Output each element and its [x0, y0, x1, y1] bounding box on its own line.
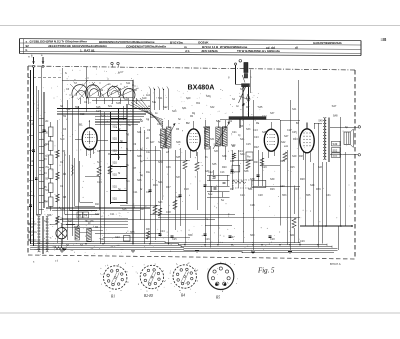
svg-text:S53: S53 — [282, 194, 287, 197]
svg-text:R24: R24 — [280, 160, 285, 163]
svg-text:C27: C27 — [230, 172, 235, 175]
svg-text:C21: C21 — [232, 131, 237, 134]
svg-text:S31: S31 — [158, 181, 163, 184]
svg-text:S20: S20 — [95, 213, 100, 216]
svg-text:C11: C11 — [110, 213, 115, 216]
svg-text:a-C7: a-C7 — [118, 71, 124, 74]
svg-text:S59: S59 — [188, 234, 193, 237]
svg-text:S23: S23 — [137, 155, 142, 158]
svg-text:C14: C14 — [146, 191, 151, 194]
svg-text:S32: S32 — [210, 106, 215, 109]
svg-text:S2 S34: S2 S34 — [214, 144, 223, 147]
svg-text:52w: 52w — [216, 120, 221, 123]
svg-text:C12: C12 — [146, 151, 151, 154]
svg-text:C16: C16 — [250, 204, 255, 207]
svg-text:S60: S60 — [250, 234, 255, 237]
svg-text:C12: C12 — [262, 115, 267, 118]
svg-text:S47: S47 — [284, 135, 289, 138]
svg-text:S11: S11 — [75, 106, 80, 109]
svg-text:S55: S55 — [306, 194, 311, 197]
svg-text:B2: B2 — [186, 121, 190, 125]
svg-text:Gr: Gr — [236, 105, 239, 108]
svg-text:C23: C23 — [254, 136, 259, 139]
svg-text:BYGYSw: BYGYSw — [170, 40, 184, 44]
svg-text:S12: S12 — [80, 113, 85, 116]
svg-text:S17: S17 — [97, 161, 102, 164]
svg-text:S31: S31 — [182, 107, 187, 110]
svg-text:dl: dl — [295, 45, 298, 49]
svg-text:b51: b51 — [196, 102, 201, 105]
svg-text:BEDIENINGSVOORSCHRdBemGBwme: BEDIENINGSVOORSCHRdBemGBwme — [99, 40, 155, 44]
svg-text:B1: B1 — [111, 295, 115, 299]
svg-text:S16: S16 — [101, 115, 106, 118]
svg-text:S21: S21 — [158, 97, 163, 100]
svg-text:R11: R11 — [230, 160, 235, 163]
svg-text:S39: S39 — [176, 196, 181, 199]
svg-text:C22: C22 — [100, 238, 105, 241]
svg-text:C24: C24 — [160, 230, 165, 233]
svg-text:B2-B3: B2-B3 — [144, 294, 153, 298]
svg-text:52Ω: 52Ω — [113, 198, 118, 201]
svg-text:S37: S37 — [270, 112, 275, 115]
svg-text:C12: C12 — [208, 171, 213, 174]
svg-text:C25: C25 — [172, 238, 177, 241]
svg-text:S33: S33 — [158, 201, 163, 204]
svg-text:m: m — [179, 290, 181, 292]
svg-text:S24: S24 — [150, 116, 155, 119]
svg-text:C16: C16 — [240, 194, 245, 197]
svg-text:S27: S27 — [150, 141, 155, 144]
svg-text:C28: C28 — [270, 238, 275, 241]
svg-text:S38: S38 — [244, 170, 249, 173]
svg-text:S49: S49 — [292, 155, 297, 158]
svg-text:S21: S21 — [137, 131, 142, 134]
svg-text:S61: S61 — [290, 234, 295, 237]
svg-text:GYSBLGGHJRM N.SJ.Tr GBejdmesWm: GYSBLGGHJRM N.SJ.Tr GBejdmesWme — [30, 40, 88, 44]
svg-text:S14: S14 — [96, 110, 101, 113]
svg-text:a11: a11 — [284, 145, 289, 148]
svg-text:C31: C31 — [326, 194, 331, 197]
svg-text:CONDENSATORENcWdmBe: CONDENSATORENcWdmBe — [126, 44, 167, 48]
svg-text:B7047 A: B7047 A — [330, 262, 341, 266]
svg-text:R25: R25 — [290, 166, 295, 169]
svg-text:d b: d b — [185, 49, 190, 53]
svg-text:S35: S35 — [212, 163, 217, 166]
svg-text:S39: S39 — [270, 178, 275, 181]
svg-text:2Ω: 2Ω — [45, 120, 48, 123]
svg-text:R26: R26 — [299, 155, 304, 158]
svg-text:S43: S43 — [318, 166, 323, 169]
svg-text:·ss·: ·ss· — [120, 249, 124, 251]
svg-text:R28: R28 — [300, 178, 305, 181]
svg-text:R21: R21 — [254, 161, 259, 164]
svg-text:S19: S19 — [142, 97, 147, 100]
svg-text:5w: 5w — [221, 199, 224, 202]
svg-text:S47: S47 — [332, 104, 337, 108]
svg-text:S49: S49 — [333, 142, 338, 146]
svg-text:C10: C10 — [97, 181, 102, 184]
svg-text:Fig. 5: Fig. 5 — [257, 268, 275, 275]
svg-text:S10: S10 — [60, 138, 65, 141]
svg-text:dELECTRISCHE GEGEVENSedmWmBdm: dELECTRISCHE GEGEVENSedmWmBdm — [48, 44, 107, 48]
svg-text:S35: S35 — [176, 156, 181, 159]
svg-text:b: b — [26, 48, 28, 52]
svg-text:52w: 52w — [208, 193, 213, 196]
svg-text:220: 220 — [30, 226, 35, 229]
svg-text:·ss·: ·ss· — [70, 250, 74, 252]
svg-text:S51: S51 — [248, 188, 253, 191]
svg-text:S11: S11 — [126, 82, 131, 85]
svg-text:S37: S37 — [176, 176, 181, 179]
svg-text:R18: R18 — [184, 188, 189, 191]
svg-text:S25: S25 — [137, 179, 142, 182]
svg-text:C13: C13 — [253, 129, 258, 132]
svg-text:52Ω: 52Ω — [113, 174, 118, 177]
svg-text:S41: S41 — [240, 138, 245, 141]
svg-text:Sf: Sf — [118, 128, 121, 131]
svg-text:S42: S42 — [281, 141, 286, 144]
svg-text:·ss·: ·ss· — [52, 246, 56, 248]
svg-text:R10: R10 — [95, 203, 100, 206]
svg-text:52Ω: 52Ω — [113, 186, 118, 189]
svg-text:S41: S41 — [292, 108, 297, 111]
svg-text:52Ω: 52Ω — [113, 138, 118, 141]
svg-text:R29: R29 — [316, 188, 321, 191]
svg-text:S30: S30 — [206, 95, 211, 98]
svg-text:C29: C29 — [300, 240, 305, 243]
svg-text:JEN GENdb: JEN GENdb — [201, 49, 218, 53]
svg-text:C15: C15 — [246, 143, 251, 146]
svg-text:S26: S26 — [159, 134, 164, 137]
svg-text:S58: S58 — [130, 231, 135, 234]
svg-text:S56: S56 — [47, 214, 52, 217]
svg-text:S29: S29 — [186, 97, 191, 100]
svg-text:·ss·: ·ss· — [110, 246, 114, 248]
svg-text:C16: C16 — [166, 166, 171, 169]
svg-text:TR W BJNBJNSB drs GBNmdw: TR W BJNBJNSB drs GBNmdw — [237, 49, 281, 53]
svg-text:R26: R26 — [270, 188, 275, 191]
svg-text:≡B: ≡B — [381, 37, 388, 42]
svg-text:R30: R30 — [146, 228, 151, 231]
svg-text:BX480A: BX480A — [188, 83, 215, 91]
svg-text:C13: C13 — [220, 171, 225, 174]
svg-text:S33: S33 — [246, 128, 251, 131]
svg-text:52Ω: 52Ω — [113, 126, 118, 129]
svg-text:S48: S48 — [333, 114, 338, 118]
svg-text:125: 125 — [30, 234, 35, 237]
svg-text:S28: S28 — [176, 141, 181, 144]
svg-text:C47: C47 — [157, 123, 162, 126]
svg-text:4x2: 4x2 — [146, 94, 151, 97]
svg-text:C18: C18 — [166, 211, 171, 214]
svg-text:R12: R12 — [146, 171, 151, 174]
svg-text:S52: S52 — [333, 148, 338, 152]
svg-text:Sr: Sr — [140, 188, 143, 191]
svg-text:S45: S45 — [318, 120, 323, 123]
svg-text:S15: S15 — [96, 106, 101, 109]
svg-text:Rw: Rw — [247, 156, 251, 159]
svg-text:S34: S34 — [222, 155, 227, 158]
svg-text:45s 176: 45s 176 — [85, 220, 95, 223]
svg-text:R20: R20 — [222, 166, 227, 169]
svg-text:C26: C26 — [205, 238, 210, 241]
svg-text:S27: S27 — [158, 141, 163, 144]
svg-text:S14: S14 — [68, 220, 73, 223]
svg-text:a.C.29: a.C.29 — [56, 218, 64, 221]
svg-text:Sm: Sm — [126, 180, 130, 183]
svg-text:R17: R17 — [166, 186, 171, 189]
svg-text:1. RAT 92.: 1. RAT 92. — [80, 48, 95, 52]
svg-text:S43: S43 — [240, 153, 245, 156]
svg-text:S36: S36 — [246, 98, 251, 101]
svg-text:52Ω: 52Ω — [113, 162, 118, 165]
svg-text:S23: S23 — [172, 110, 177, 113]
svg-text:C28: C28 — [258, 194, 263, 197]
svg-text:C19: C19 — [262, 166, 267, 169]
svg-text:·ss·: ·ss· — [34, 249, 38, 251]
svg-text:S18: S18 — [116, 102, 121, 105]
svg-text:R19: R19 — [153, 184, 158, 187]
svg-text:·ss·: ·ss· — [90, 248, 94, 250]
svg-text:S53: S53 — [333, 154, 338, 158]
svg-text:S44: S44 — [310, 184, 315, 187]
svg-text:S12: S12 — [66, 108, 71, 111]
svg-text:S33: S33 — [214, 150, 219, 153]
svg-text:R14: R14 — [140, 208, 145, 211]
svg-text:B5: B5 — [216, 296, 220, 300]
svg-text:S31: S31 — [210, 138, 215, 141]
svg-text:GARANTIEBEWIJSdb: GARANTIEBEWIJSdb — [313, 41, 342, 45]
svg-text:B4: B4 — [181, 294, 185, 298]
svg-text:S35: S35 — [258, 106, 263, 109]
svg-text:C23: C23 — [115, 236, 120, 239]
svg-text:C11: C11 — [133, 191, 138, 194]
svg-text:R23: R23 — [293, 138, 298, 141]
svg-text:B1: B1 — [79, 123, 83, 127]
